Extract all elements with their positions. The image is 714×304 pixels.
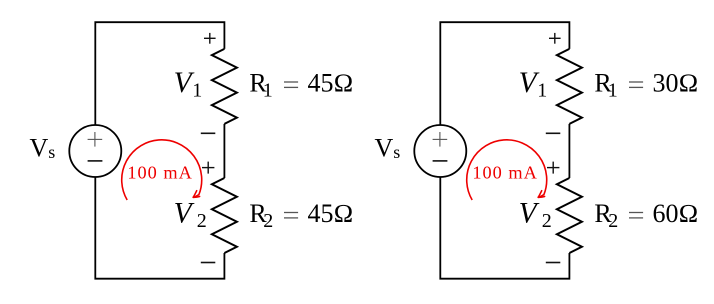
label: - polarity inside source Vs (right circuit) [433, 160, 448, 162]
label: + polarity mark above R1 (left circuit) [204, 33, 216, 44]
wire: right circuit, source top terminal up / top side / down to R1 top [440, 22, 569, 125]
svg-text:30Ω: 30Ω [653, 69, 699, 98]
svg-text:V: V [174, 198, 195, 230]
label: - polarity mark below R1 (right circuit) [546, 132, 561, 134]
resistor R1 (left circuit) [212, 49, 237, 124]
resistor R2 (right circuit) [557, 178, 582, 253]
value label R2 = 60 ohm (right circuit) [594, 199, 698, 232]
svg-text:1: 1 [537, 80, 547, 102]
svg-text:60Ω: 60Ω [653, 199, 699, 228]
label: - polarity mark below R2 (right circuit) [546, 262, 561, 264]
label V2 (voltage across R2, left circuit) [174, 198, 207, 232]
svg-text:V: V [519, 198, 540, 230]
svg-text:2: 2 [197, 210, 207, 232]
value label R2 = 45 ohm (left circuit) [249, 199, 353, 232]
current loop arrow, clockwise mesh current (right circuit) [467, 140, 547, 200]
label: - polarity mark below R1 (left circuit) [201, 132, 216, 134]
svg-text:V: V [30, 133, 49, 162]
label Vs (source voltage, left circuit) [30, 133, 56, 162]
value label R1 = 45 ohm (left circuit) [249, 68, 353, 101]
label: + polarity mark above R2 (left circuit) [202, 162, 214, 174]
voltage source Vs (right circuit) [414, 125, 466, 177]
wire: bottom return from R2 to source bottom terminal (left circuit) [95, 177, 224, 279]
svg-text:100 mA: 100 mA [472, 163, 537, 183]
svg-text:s: s [393, 142, 400, 162]
resistor R2 (left circuit) [212, 178, 237, 253]
svg-text:100 mA: 100 mA [127, 163, 192, 183]
label: + polarity mark above R2 (right circuit) [547, 162, 559, 174]
voltage source Vs (left circuit) [69, 125, 121, 177]
svg-text:45Ω: 45Ω [308, 199, 354, 228]
svg-text:s: s [48, 142, 55, 162]
label V2 (voltage across R2, right circuit) [519, 198, 552, 232]
svg-text:1: 1 [192, 80, 202, 102]
svg-text:1: 1 [263, 80, 273, 102]
svg-text:V: V [375, 133, 394, 162]
svg-text:1: 1 [608, 80, 618, 102]
svg-text:2: 2 [542, 210, 552, 232]
label Vs (source voltage, right circuit) [375, 133, 401, 162]
resistor R1 (right circuit) [557, 49, 582, 124]
svg-text:45Ω: 45Ω [308, 69, 354, 98]
svg-text:2: 2 [608, 210, 618, 232]
wire: between R1 and R2 (right circuit) [568, 124, 570, 178]
label: + polarity mark above R1 (right circuit) [549, 33, 561, 44]
label: + polarity inside source Vs (right circuit) [433, 132, 448, 147]
wire: left circuit, source top terminal up / top side / down to R1 top [95, 22, 224, 125]
label V1 (voltage across R1, right circuit) [519, 67, 548, 102]
current loop arrow, clockwise mesh current (left circuit) [122, 140, 202, 200]
label: + polarity inside source Vs (left circuit) [88, 132, 103, 147]
label: - polarity inside source Vs (left circuit) [88, 160, 103, 162]
wire: between R1 and R2 (left circuit) [223, 124, 225, 178]
label V1 (voltage across R1, left circuit) [174, 67, 203, 102]
value label R1 = 30 ohm (right circuit) [594, 68, 698, 101]
label: - polarity mark below R2 (left circuit) [201, 262, 216, 264]
svg-text:2: 2 [263, 210, 273, 232]
wire: bottom return from R2 to source bottom terminal (right circuit) [440, 177, 569, 279]
